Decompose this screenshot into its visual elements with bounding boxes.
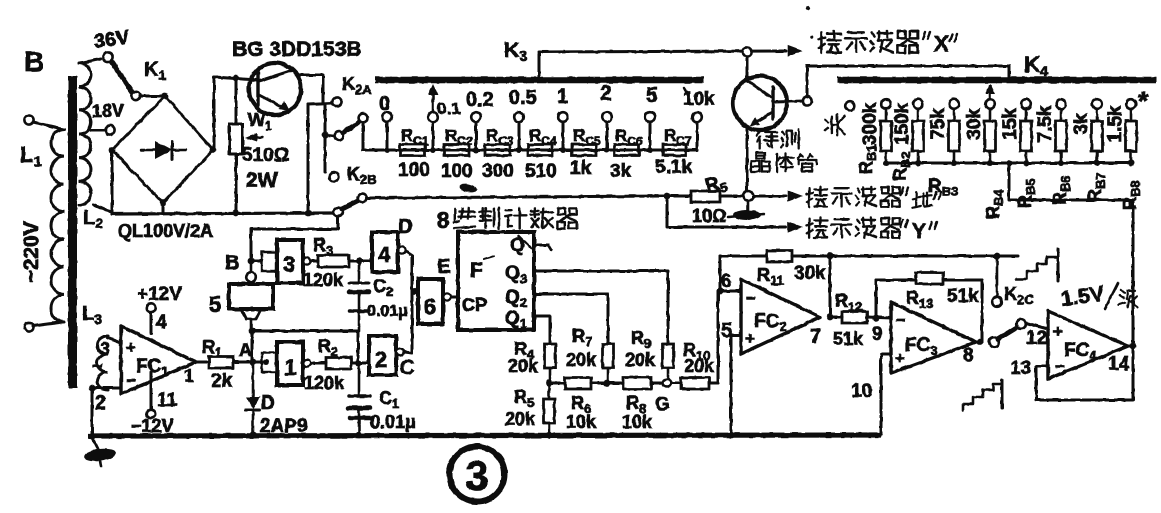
gate 3 output [303, 257, 310, 264]
ink speck 2 [806, 6, 810, 10]
transistor DUT base bar [771, 87, 774, 119]
label scope-X [820, 32, 823, 52]
switch K3 tap 1 [558, 112, 568, 122]
switch K2C up contact [992, 297, 1002, 307]
svg-text:CP: CP [462, 295, 487, 315]
switch K2 lower pivot [334, 208, 343, 217]
svg-text:10: 10 [851, 381, 872, 402]
transistor BG outline [249, 63, 301, 115]
svg-text:11: 11 [157, 390, 178, 411]
resistor R4 20k [545, 344, 556, 368]
wire collector tee [308, 103, 332, 104]
svg-text:−: − [746, 289, 756, 308]
figure number 3 [450, 447, 505, 502]
resistor RC1 [400, 145, 425, 156]
gate 3 input box [262, 252, 276, 271]
terminal L1 bottom [24, 322, 33, 331]
inductor L1 primary winding [51, 129, 64, 322]
junction X / collector [742, 47, 751, 56]
svg-text:9: 9 [872, 324, 883, 345]
switch K2C arm [998, 328, 1016, 339]
svg-text:0.5: 0.5 [509, 87, 537, 109]
svg-text:5: 5 [646, 84, 658, 107]
junction K2C riser [994, 253, 1001, 260]
svg-text:+: + [895, 349, 905, 368]
wire pivot feed [324, 104, 327, 172]
junction chain [647, 147, 653, 153]
svg-text:75k: 75k [928, 108, 949, 140]
wire B node riser [251, 217, 338, 257]
svg-text:3: 3 [283, 252, 295, 277]
switch K2B contact [330, 173, 339, 182]
transformer core [68, 76, 77, 388]
junction ladder [1128, 160, 1134, 166]
junction chain [473, 147, 479, 153]
svg-text:+: + [126, 338, 136, 357]
svg-text:1: 1 [184, 366, 194, 386]
junction rail bottom [305, 210, 312, 217]
bridge rectifier outline [112, 96, 213, 203]
svg-text:120k: 120k [304, 373, 345, 393]
svg-text:14: 14 [1108, 354, 1130, 375]
resistor RC5 [572, 145, 596, 156]
output Qbar [534, 244, 548, 247]
wire FC4 feedback [1036, 346, 1133, 400]
wire D to gate6 [406, 251, 418, 291]
svg-text:10Ω: 10Ω [692, 206, 726, 226]
wire K3 to X [538, 54, 541, 78]
junction bridge bottom [160, 200, 167, 207]
switch K2 pivot [325, 135, 334, 136]
wire D-C riser [411, 291, 414, 352]
wire pin5 ground [731, 334, 741, 337]
ground at base [747, 201, 750, 211]
junction emitter bus / R5 [664, 193, 671, 200]
switch K4 tap 30k [985, 99, 995, 109]
svg-text:4: 4 [378, 242, 391, 267]
wire pin2 [92, 387, 121, 390]
junction R11/out [827, 253, 834, 260]
switch K4 tap 1.5k [1126, 99, 1136, 109]
svg-text:6: 6 [424, 294, 436, 319]
switch K4 off contact [845, 101, 855, 111]
resistor RB2 [913, 121, 924, 151]
resistor RC6 [614, 145, 639, 156]
switch K4 tap 7.5k [1056, 99, 1066, 109]
svg-text:B: B [225, 252, 239, 274]
waveform staircase (step src) [963, 384, 1001, 411]
wire pin10 stub [881, 353, 891, 356]
transistor BG base bar [256, 73, 259, 105]
switch K2C pole [989, 337, 999, 347]
switch K3 tap 0.1 [428, 112, 438, 122]
junction ladder [1058, 160, 1064, 166]
svg-text:E: E [437, 256, 450, 278]
resistor W1 [235, 78, 238, 124]
junction gate5 out [249, 328, 255, 334]
svg-text:1: 1 [284, 355, 296, 380]
svg-text:C: C [400, 357, 414, 379]
resistor RC3 [485, 145, 510, 156]
switch K1 arm [112, 62, 132, 92]
wire to scope ground [753, 195, 786, 198]
wire R13 drop [981, 280, 984, 342]
svg-text:120k: 120k [303, 270, 344, 290]
node DUT base [802, 96, 811, 105]
svg-text:3: 3 [100, 339, 110, 359]
node A [250, 359, 257, 366]
svg-text:D: D [398, 216, 412, 238]
junction W1 bottom [233, 210, 240, 217]
label scope-ground [808, 188, 810, 207]
junction FC4 out [1130, 343, 1137, 350]
wire emitter bus [367, 196, 667, 198]
wire A feedback loop [252, 330, 358, 333]
svg-text:1k: 1k [570, 158, 592, 179]
switch K4 tap 3k [1092, 99, 1102, 109]
switch K4 tap 15k [1021, 99, 1031, 109]
ink speck 3 [810, 35, 814, 39]
junction ladder [883, 160, 889, 166]
svg-text:5: 5 [209, 292, 221, 317]
svg-text:2: 2 [600, 82, 612, 105]
svg-text:100: 100 [441, 161, 473, 182]
wire FC2out to K2C [830, 255, 1018, 258]
junction R2/C1 [355, 360, 362, 367]
resistor RC4 [528, 145, 552, 156]
junction R12/FC3 [873, 315, 880, 322]
svg-text:2: 2 [375, 347, 387, 372]
junction diode bottom [250, 432, 257, 439]
wire throw to chain [362, 123, 365, 149]
resistor R5 10ohm [667, 195, 691, 198]
wire L3 to pin3 [108, 338, 121, 343]
resistor R8 10k [607, 382, 623, 385]
svg-text:7.5k: 7.5k [1035, 105, 1056, 142]
resistor RB1 [881, 121, 892, 151]
resistor R5 20k [548, 383, 551, 399]
wire ladder to output [1009, 163, 1133, 345]
resistor RC2 [444, 145, 469, 156]
wire ground rail [88, 435, 881, 436]
gate 1 [277, 342, 303, 385]
svg-text:~220V: ~220V [20, 221, 43, 282]
svg-text:20k: 20k [566, 350, 597, 370]
resistor R6 10k [549, 382, 565, 385]
wire Q2 [534, 294, 608, 344]
junction R6/R7 [604, 380, 611, 387]
junction chain [560, 147, 566, 153]
switch K3 tap 0.2 [471, 112, 481, 122]
svg-text:+: + [1053, 322, 1063, 341]
terminal L1 top [24, 115, 33, 124]
switch K4 tap 300k [881, 99, 891, 109]
wire supply rail [112, 213, 333, 214]
transistor DUT collector lead [746, 57, 749, 77]
transistor DUT collector chord [748, 81, 771, 97]
wire collector rail down [307, 104, 310, 213]
resistor R11 30k [720, 255, 767, 258]
svg-text:A: A [239, 340, 252, 360]
svg-text:3k: 3k [610, 161, 632, 182]
gate 4 output [398, 246, 405, 253]
op-amp FC1 [121, 326, 196, 394]
resistor R10 20k [671, 382, 681, 385]
wire bridge+ riser [213, 77, 257, 150]
switch K4 tap 150k [913, 99, 923, 109]
wire RB ladder bottom [886, 162, 1131, 165]
junction loop left [249, 328, 256, 335]
wire base to K4 bus [807, 66, 1009, 97]
resistor R9 20k [663, 344, 674, 368]
terminal -12V [150, 372, 153, 409]
tap 36V [80, 59, 101, 63]
wire X bus [539, 51, 786, 52]
junction FC2 out [827, 314, 834, 321]
svg-text:−: − [126, 371, 136, 390]
svg-text:2: 2 [95, 392, 106, 414]
svg-text:13: 13 [1010, 358, 1031, 379]
label DUT (under test) [757, 131, 760, 136]
svg-text:12: 12 [1026, 328, 1047, 349]
svg-text:300: 300 [482, 161, 514, 182]
switch K2 upper throw contact [359, 114, 368, 123]
transistor DUT emitter lead [746, 128, 749, 191]
svg-text:300k: 300k [860, 102, 881, 145]
switch K2C throw [1016, 319, 1026, 329]
switch K1 contact 36V [103, 52, 112, 61]
switch K3 tap 10k [692, 112, 702, 122]
svg-text:30k: 30k [794, 263, 826, 284]
wire R11 riser [719, 256, 722, 291]
svg-text:−12V: −12V [131, 416, 174, 436]
capacitor C2 [358, 261, 361, 281]
svg-text:20k: 20k [684, 356, 715, 376]
svg-text:Y: Y [912, 220, 926, 243]
junction R4/R5 [546, 380, 553, 387]
inductor L3 winding [97, 336, 108, 390]
wire ground leg [91, 388, 94, 435]
gate 2 [369, 336, 396, 375]
inverter 5 box [229, 284, 273, 309]
ink speck [458, 182, 477, 194]
svg-text:10k: 10k [683, 89, 715, 110]
ground symbol [92, 437, 98, 449]
svg-text:20k: 20k [505, 409, 536, 429]
inverter 5 input [250, 263, 253, 272]
svg-text:510Ω: 510Ω [242, 145, 289, 166]
wire bridge left to rail [111, 150, 114, 214]
op-amp FC2 [741, 279, 820, 354]
switch K3 tap 2 [602, 112, 612, 122]
resistor R2 [311, 362, 326, 365]
node base contact [743, 191, 753, 201]
junction gate6 input [411, 288, 418, 295]
junction ladder [1094, 160, 1100, 166]
svg-text:8: 8 [437, 208, 449, 233]
wire B to gate3 [251, 260, 262, 263]
waveform staircase (triangle src) [1016, 257, 1056, 279]
transistor BG collector [259, 70, 323, 103]
svg-text:B: B [24, 46, 44, 77]
wire R11 drop [829, 256, 832, 317]
svg-text:5.1k: 5.1k [655, 157, 692, 178]
inverter 5 output [241, 309, 261, 319]
diode inside bridge [141, 149, 155, 151]
svg-text:10k: 10k [566, 412, 597, 432]
svg-text:~: ~ [92, 356, 103, 376]
switch K3 tap 0 [382, 112, 392, 122]
junction chain [604, 147, 610, 153]
node G [663, 379, 671, 387]
resistor RB8 [1126, 121, 1137, 151]
op-amp FC4 [1048, 311, 1128, 379]
inductor L2 secondary winding [79, 63, 91, 205]
svg-text:51k: 51k [947, 286, 979, 307]
svg-text:7: 7 [810, 326, 821, 348]
pot W1 wiper arrow [249, 137, 263, 138]
svg-text:0.01μ: 0.01μ [367, 303, 408, 320]
junction chain [384, 147, 390, 153]
junction bridge left [109, 147, 116, 154]
svg-text:D: D [261, 393, 275, 414]
gate 6 output [443, 293, 450, 300]
svg-text:15k: 15k [1000, 108, 1021, 140]
junction ladder [1023, 160, 1029, 166]
svg-text:20k: 20k [625, 350, 656, 370]
svg-text:150k: 150k [892, 102, 913, 145]
wire R13 riser [875, 280, 878, 318]
tap 18V contact [91, 129, 104, 132]
wire rail to FC3 pin10 [880, 354, 883, 434]
switch K4 tap 75k [949, 99, 959, 109]
switch K2 lower throw contact [358, 194, 367, 203]
svg-text:+12V: +12V [137, 284, 182, 305]
wire K1 to bridge [140, 95, 162, 98]
resistor R1 [196, 361, 209, 364]
resistor RB6 [1056, 121, 1067, 151]
resistor RB4 [985, 121, 996, 151]
junction bridge top [162, 93, 169, 100]
resistor R12 51k [830, 316, 842, 319]
junction R3/C2 [356, 258, 363, 265]
svg-text:8: 8 [963, 345, 974, 366]
label scope-Y [808, 219, 810, 238]
switch K4 wiper at 30k [989, 86, 992, 98]
junction base/W1 [233, 75, 240, 82]
wire Rc chain [363, 149, 697, 152]
counter box [458, 232, 534, 330]
svg-text:20k: 20k [508, 356, 539, 376]
junction R5 bottom [546, 432, 553, 439]
diode D 2AP9 [252, 366, 255, 396]
wire bridge bottom drop [162, 203, 165, 214]
transistor DUT outline [733, 76, 787, 130]
switch K4 bus bar [837, 77, 1156, 84]
junction ladder drop [1006, 160, 1012, 166]
svg-text:3k: 3k [1071, 113, 1092, 135]
switch K2A contact [332, 97, 341, 106]
gate 2 output [396, 348, 403, 355]
junction chain [516, 147, 522, 153]
junction ladder [915, 160, 921, 166]
resistor RC7 [663, 145, 686, 156]
gate 3 [277, 240, 303, 283]
svg-text:30k: 30k [964, 108, 985, 140]
svg-text:0.1: 0.1 [437, 99, 461, 118]
junction chain [430, 147, 436, 153]
resistor R3 [311, 260, 318, 263]
resistor R7 20k [603, 344, 614, 368]
junction pivot [322, 132, 329, 139]
junction C1 bottom [356, 432, 363, 439]
svg-text:−: − [896, 311, 906, 330]
terminal +12V [150, 313, 153, 333]
transistor BG emitter [259, 95, 286, 109]
resistor RB7 [1092, 121, 1103, 151]
resistor RB3 [949, 121, 960, 151]
wire pin6 stub [720, 290, 741, 293]
junction ladder [951, 160, 957, 166]
wire FC4 output [1128, 345, 1133, 348]
svg-text:0.2: 0.2 [466, 89, 494, 111]
svg-text:1: 1 [557, 86, 568, 108]
junction FC2 pin6 [717, 288, 724, 295]
transistor DUT emitter [754, 112, 773, 123]
gate 1 output [303, 359, 310, 366]
label off (guan) [825, 115, 844, 136]
svg-text:0.01μ: 0.01μ [370, 412, 416, 432]
junction ladder [987, 160, 993, 166]
gate 6 [418, 279, 443, 324]
switch K3 tap 0.5 [514, 112, 524, 122]
svg-text:2k: 2k [211, 371, 233, 392]
junction FC3 out [977, 339, 984, 346]
wire to scope Y [667, 200, 786, 227]
junction bridge right [210, 147, 217, 154]
svg-text:X: X [934, 31, 949, 56]
switch K2 arm upper [343, 122, 359, 133]
svg-text:18V: 18V [92, 101, 124, 121]
transistor DUT base lead [775, 101, 803, 102]
junction L3 bottom [89, 385, 96, 392]
svg-text:3: 3 [465, 452, 488, 499]
resistor RB5 [1021, 121, 1032, 151]
svg-text:6: 6 [721, 271, 732, 292]
svg-text:10k: 10k [622, 412, 653, 432]
svg-text:QL100V/2A: QL100V/2A [118, 221, 213, 241]
switch K2 arm lower [342, 201, 358, 209]
svg-text:51k: 51k [833, 329, 864, 349]
svg-text:510: 510 [525, 161, 557, 182]
svg-text:0: 0 [379, 93, 390, 115]
svg-text:4: 4 [156, 312, 167, 333]
svg-text:100: 100 [398, 160, 430, 181]
switch K3 wiper at 0.1 [432, 88, 435, 111]
node B [248, 258, 255, 265]
resistor R13 51k [876, 279, 916, 282]
junction pin5 rail [728, 432, 735, 439]
svg-text:1.5k: 1.5k [1105, 105, 1126, 142]
wire Q1 [534, 316, 550, 344]
op-amp FC3 [891, 302, 976, 373]
svg-text:2W: 2W [246, 169, 278, 192]
svg-text:BG 3DD153B: BG 3DD153B [232, 38, 362, 61]
tick mark near 10k [684, 88, 688, 96]
wire pin12 [1026, 323, 1048, 329]
gate 4 [372, 232, 398, 272]
capacitor C1 [358, 363, 361, 394]
